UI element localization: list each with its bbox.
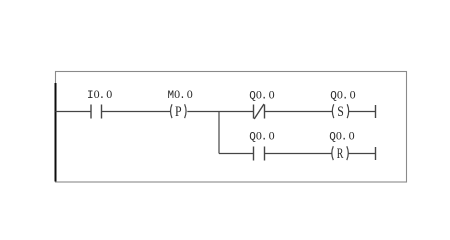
svg-text:S: S [337,104,344,120]
svg-text:Q0.0: Q0.0 [249,87,274,102]
wire contact NO to coil R [265,153,332,155]
wire coil R to terminal [349,153,376,155]
svg-text:Q0.0: Q0.0 [330,87,355,102]
branch wire down [218,112,220,154]
svg-text:I0.0: I0.0 [87,87,112,102]
coil (S) set Q0.0 [332,104,348,120]
terminal bar rung1 [375,105,377,118]
wire coil P to branch and contact Q0.0 NC [187,111,253,113]
svg-text:P: P [175,104,182,120]
terminal bar rung2 [375,147,377,160]
frame border [56,72,407,183]
wire rung1 rail to contact I0.0 [56,111,92,113]
left power rail [55,83,57,182]
wire contact I0.0 to coil P [102,111,171,113]
svg-text:M0.0: M0.0 [168,87,193,102]
contact I0.0 (NO) [91,105,102,119]
coil (P) positive edge M0.0 [171,104,187,120]
contact Q0.0 (NC) [254,104,265,119]
svg-text:R: R [337,146,344,162]
wire contact NC to coil S [265,111,333,113]
svg-text:Q0.0: Q0.0 [329,129,354,144]
wire rung2 branch to contact Q0.0 NO [219,153,254,155]
contact Q0.0 (NO) [254,147,265,161]
svg-text:Q0.0: Q0.0 [249,129,274,144]
wire coil S to terminal [349,111,376,113]
coil (R) reset Q0.0 [332,146,349,162]
